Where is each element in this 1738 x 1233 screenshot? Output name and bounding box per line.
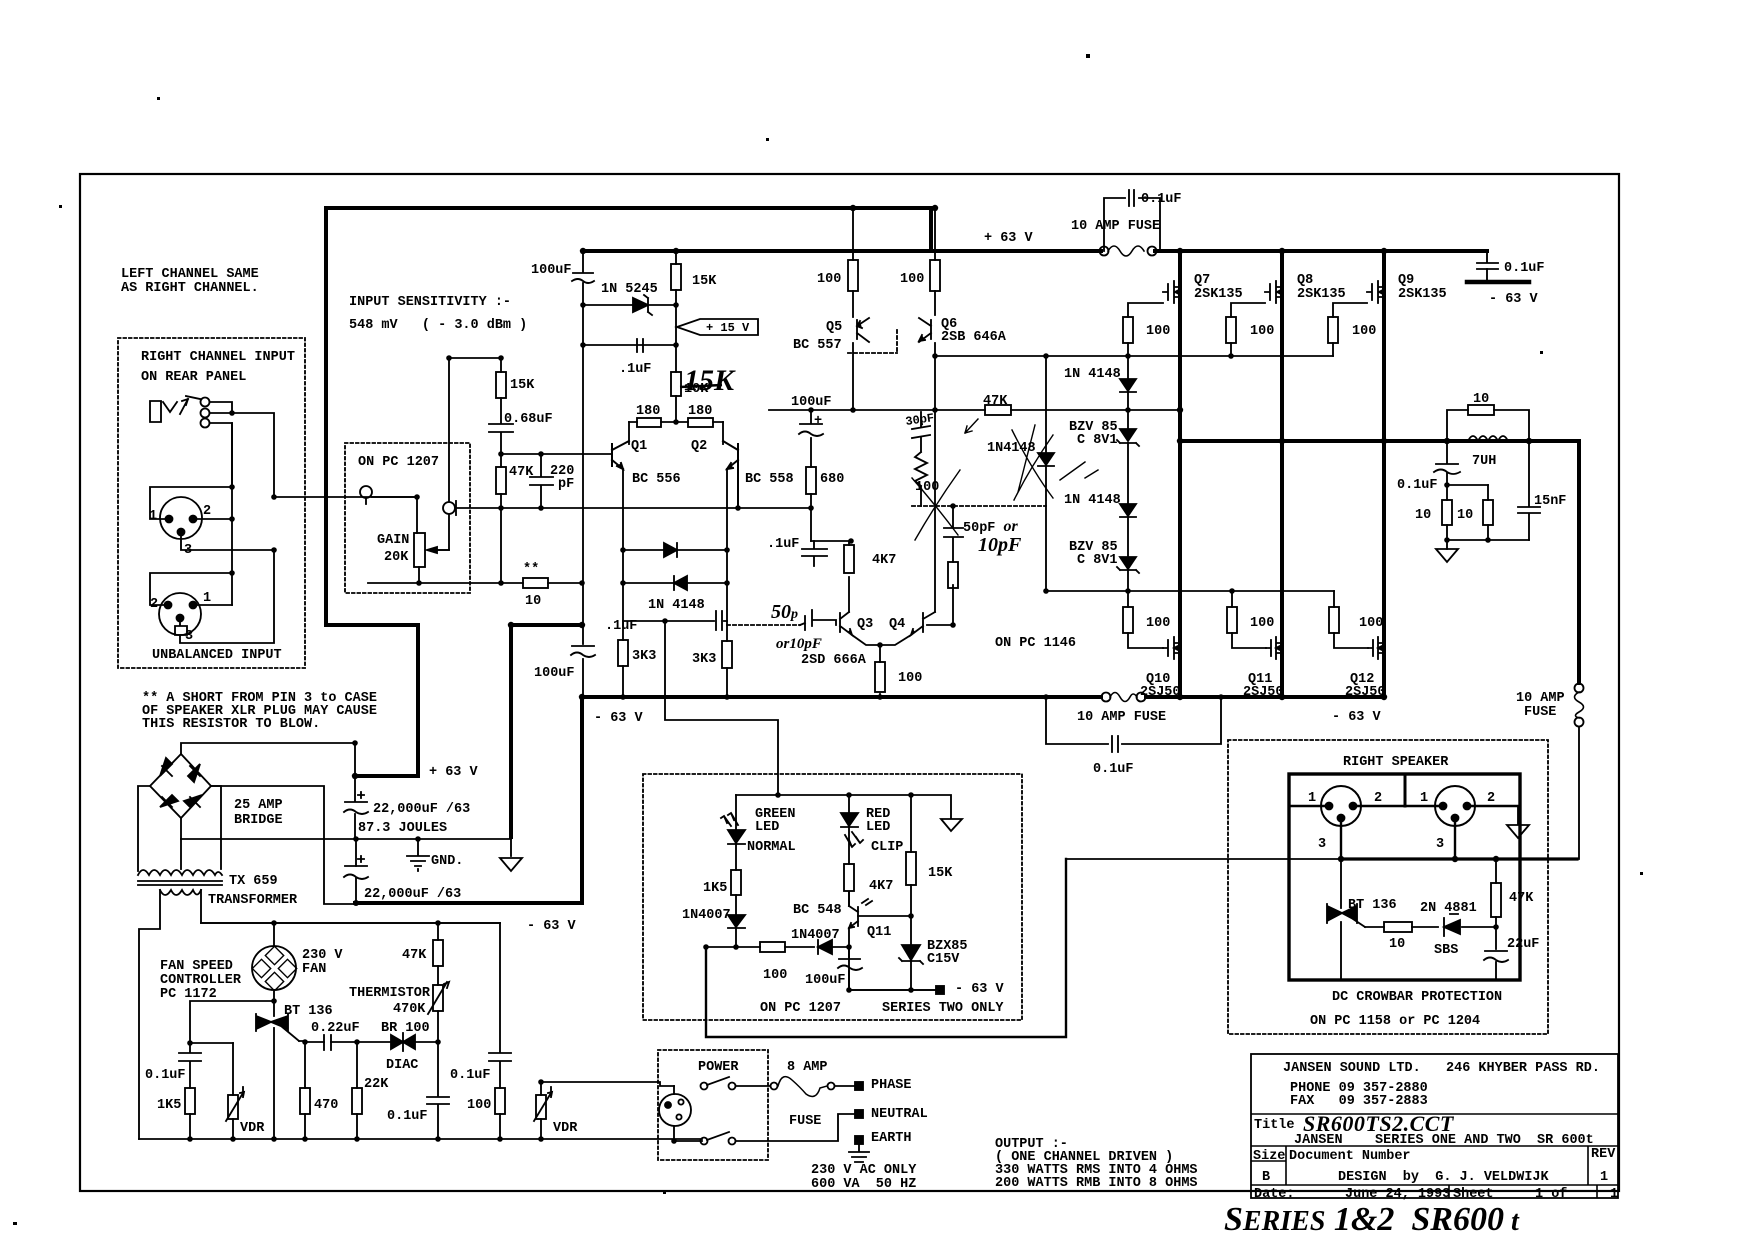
- svg-text:BC 557: BC 557: [793, 338, 842, 353]
- wire Q8 gate branch: [1231, 303, 1265, 356]
- switch power top: [701, 1083, 708, 1090]
- svg-text:180: 180: [636, 404, 660, 419]
- box ON PC 1207 gain dotted: [345, 443, 470, 593]
- tag +15V pointed box: [677, 319, 758, 335]
- svg-text:DIAC: DIAC: [386, 1058, 418, 1073]
- wire 15K input column: [500, 358, 502, 583]
- diode D 1N5245 zener: [633, 295, 652, 315]
- svg-text:Q9: Q9: [1398, 273, 1414, 288]
- wire fuse to speaker line: [1578, 727, 1580, 859]
- diode 1N4007 led2: [818, 940, 832, 954]
- resistor 180 left: [637, 418, 661, 427]
- triac BT136 crowbar: [1327, 904, 1365, 927]
- capacitor 0.1uF diac: [427, 1097, 449, 1104]
- svg-text:1N 4148: 1N 4148: [648, 598, 705, 613]
- wire Q11 collector emitter: [848, 892, 850, 990]
- node dots group: [580, 302, 586, 308]
- capacitor 0.1uF top bypass: [1129, 190, 1134, 206]
- wire right branch top: [499, 923, 501, 1139]
- wire output bus: [1180, 441, 1579, 683]
- svg-text:- 63 V: - 63 V: [955, 982, 1005, 997]
- wire zobel right resistor column: [1487, 485, 1489, 540]
- wire 0.1uF top right stub: [1486, 251, 1488, 282]
- wire Q8 drain-source column: [1280, 251, 1284, 697]
- wire Q1 emitter column: [622, 469, 624, 697]
- svg-text:1: 1: [1420, 791, 1428, 806]
- svg-text:EARTH: EARTH: [871, 1131, 912, 1146]
- ground triangle speaker: [1507, 825, 1529, 838]
- wire dashed mid sense: [912, 505, 1046, 507]
- svg-text:100uF: 100uF: [805, 973, 846, 988]
- terminal -63V led: [936, 986, 944, 994]
- connector pin circle input: [360, 486, 372, 498]
- svg-text:0.22uF: 0.22uF: [311, 1021, 360, 1036]
- resistor 22K: [352, 1088, 362, 1114]
- svg-text:JANSEN SERIES ONE AND TWO: JANSEN SERIES ONE AND TWO SR 600t: [1294, 1133, 1594, 1148]
- diode 2N4881 SBS: [1444, 914, 1460, 936]
- capacitor 22000uF top: [344, 792, 368, 814]
- wire mid feedback long row: [769, 409, 1180, 411]
- svg-text:+ 63 V: + 63 V: [429, 765, 479, 780]
- svg-text:100: 100: [898, 671, 922, 686]
- resistor 10 output loop: [1468, 405, 1494, 415]
- wire Q9 gate branch: [1333, 303, 1367, 356]
- transformer primary winding: [160, 890, 201, 895]
- svg-text:548 mV ( - 3.0 dBm ): 548 mV ( - 3.0 dBm ): [349, 318, 527, 333]
- resistor 15K top (676): [671, 264, 681, 290]
- svg-text:BT 136: BT 136: [284, 1004, 333, 1019]
- fuse right 10A vertical: [1575, 684, 1584, 693]
- transistor Q12 2SJ50 mosfet: [1368, 637, 1384, 659]
- wire Q3 Q4 emitter join: [852, 635, 911, 697]
- svg-text:Q3: Q3: [857, 617, 873, 632]
- svg-text:100: 100: [1146, 616, 1170, 631]
- wire sbs to 47K node: [1462, 926, 1496, 928]
- diode 1N4007 led: [728, 915, 745, 928]
- svg-text:1N4007: 1N4007: [682, 908, 731, 923]
- ground triangle open: [500, 839, 522, 871]
- svg-text:1N4148: 1N4148: [987, 441, 1036, 456]
- svg-text:15nF: 15nF: [1534, 494, 1566, 509]
- wire 15nF column: [1528, 441, 1530, 540]
- connector mains plug: [659, 1094, 691, 1126]
- resistor 100 gate Q11: [1227, 607, 1237, 633]
- svg-text:2SK135: 2SK135: [1398, 287, 1447, 302]
- svg-text:180: 180: [688, 404, 712, 419]
- varistor VDR right: [536, 1095, 546, 1119]
- wire XLR2 pin2: [150, 573, 232, 605]
- transistor Q1 BC556: [612, 441, 629, 469]
- svg-text:100: 100: [1250, 324, 1274, 339]
- capacitor 50p sketchy: [800, 610, 836, 630]
- wire primary right leg: [201, 890, 500, 923]
- wire feedback vertical to gain pot: [431, 358, 449, 550]
- svg-text:100: 100: [1359, 616, 1383, 631]
- svg-text:- 63 V: - 63 V: [594, 711, 644, 726]
- svg-text:CONTROLLER: CONTROLLER: [160, 973, 242, 988]
- svg-text:ON PC 1207: ON PC 1207: [760, 1001, 841, 1016]
- capacitor 15nF: [1518, 507, 1540, 513]
- wire diode ladder column: [1127, 356, 1129, 591]
- svg-text:10 AMP: 10 AMP: [1516, 691, 1565, 706]
- wire Q2 emitter column: [726, 469, 728, 697]
- resistor 100 tail (880,662-694): [875, 662, 885, 692]
- resistor ** 10 (523-548,583): [523, 578, 548, 588]
- svg-text:**: **: [523, 562, 539, 577]
- transistor Q9 2SK135 mosfet: [1367, 281, 1385, 303]
- svg-text:600 VA 50 HZ: 600 VA 50 HZ: [811, 1177, 916, 1192]
- capacitor 100uF bottom left (583,645-658): [571, 646, 595, 657]
- svg-text:BT 136: BT 136: [1348, 898, 1397, 913]
- ground earth symbol: [849, 1144, 869, 1162]
- diode LED red: [841, 813, 863, 847]
- svg-text:+ 15 V: + 15 V: [706, 321, 750, 335]
- svg-text:FUSE: FUSE: [1524, 705, 1556, 720]
- connector speaker XLR2: [1435, 786, 1475, 826]
- wire Q12 gate branch: [1334, 591, 1368, 648]
- wire switch to fuse: [736, 1085, 770, 1087]
- svg-text:2SK135: 2SK135: [1194, 287, 1243, 302]
- svg-text:1 of: 1 of: [1535, 1187, 1567, 1202]
- wire 47K stubs: [437, 923, 439, 985]
- resistor 47K crowbar: [1491, 883, 1501, 917]
- transformer secondary winding: [138, 870, 222, 875]
- svg-text:3: 3: [1436, 837, 1444, 852]
- wire +63V rail after fuse: [1155, 249, 1487, 253]
- wire 180 resistor row: [629, 421, 723, 423]
- svg-text:230 V: 230 V: [302, 948, 343, 963]
- wire diode rung upper: [623, 549, 727, 551]
- triac BT136: [256, 1014, 299, 1041]
- ground GND symbol: [407, 839, 429, 871]
- wire .1uF center low row: [623, 620, 727, 622]
- resistor 680 (811,467-494): [806, 467, 816, 494]
- svg-text:10 AMP FUSE: 10 AMP FUSE: [1077, 710, 1166, 725]
- svg-text:100: 100: [1352, 324, 1376, 339]
- wire Q7 drain-source column: [1178, 251, 1182, 697]
- resistor 100 gate Q10: [1123, 607, 1133, 633]
- transistor Q10 2SJ50 mosfet: [1163, 637, 1180, 659]
- wire diode rung lower: [623, 582, 727, 584]
- sheet border frame: [80, 174, 1619, 1191]
- wire bridge AC left: [138, 786, 150, 871]
- svg-text:10K: 10K: [684, 382, 709, 397]
- svg-text:UNBALANCED INPUT: UNBALANCED INPUT: [152, 648, 282, 663]
- svg-text:3: 3: [1318, 837, 1326, 852]
- svg-text:Q8: Q8: [1297, 273, 1313, 288]
- svg-text:10: 10: [1389, 937, 1405, 952]
- capacitor 0.1uF zobel: [1434, 464, 1460, 474]
- wire shield bus: [231, 423, 233, 605]
- terminal EARTH: [855, 1136, 863, 1144]
- svg-text:1N 4148: 1N 4148: [1064, 493, 1121, 508]
- wire fuse to phase: [835, 1085, 855, 1087]
- fuse top 10A: [1100, 247, 1109, 256]
- wire 100uF mid column: [810, 410, 812, 541]
- svg-text:4K7: 4K7: [869, 879, 893, 894]
- wire input node row: [449, 357, 501, 359]
- svg-text:0.1uF: 0.1uF: [1141, 192, 1182, 207]
- wire XLR1 pin3: [181, 532, 274, 550]
- transistor Q3 2SD666A: [840, 612, 852, 635]
- transistor Q2 BC558: [723, 441, 738, 508]
- wire diac row: [305, 1041, 438, 1043]
- diode bridge upper left: [160, 758, 172, 776]
- wire -63V rail right of fuse: [1146, 695, 1384, 699]
- svg-text:2SJ50: 2SJ50: [1243, 685, 1284, 700]
- wire Q4 collector column: [934, 343, 936, 612]
- wire -63V feed thick: [511, 623, 582, 627]
- svg-text:AS RIGHT CHANNEL.: AS RIGHT CHANNEL.: [121, 281, 259, 296]
- wire green led column: [735, 795, 737, 947]
- diode 1N4148 ladder 1: [1120, 379, 1136, 392]
- svg-text:THERMISTOR: THERMISTOR: [349, 986, 431, 1001]
- capacitor 22000uF bottom: [344, 856, 368, 879]
- svg-text:NEUTRAL: NEUTRAL: [871, 1107, 928, 1122]
- svg-text:- 63 V: - 63 V: [1489, 292, 1539, 307]
- svg-text:CLIP: CLIP: [871, 840, 903, 855]
- svg-text:SBS: SBS: [1434, 943, 1458, 958]
- svg-text:Date:: Date:: [1254, 1187, 1295, 1202]
- resistor 1K5 led: [731, 870, 741, 895]
- svg-text:10pF: 10pF: [978, 534, 1022, 556]
- svg-text:pF: pF: [558, 477, 574, 492]
- wire cap2 stubs: [355, 839, 357, 903]
- wire Q4 base link: [927, 585, 953, 625]
- capacitor .1uF center low (716-722,610-630): [716, 611, 722, 630]
- svg-text:22K: 22K: [364, 1077, 389, 1092]
- diode rung lower 1N4148: [674, 576, 687, 590]
- wire gate bus row: [935, 355, 1333, 357]
- connector pin circle wiper: [443, 502, 455, 514]
- svg-text:REV: REV: [1591, 1147, 1616, 1162]
- svg-text:2SK135: 2SK135: [1297, 287, 1346, 302]
- resistor 1K5 fan: [185, 1088, 195, 1114]
- resistor 470: [300, 1088, 310, 1114]
- wire 47K column: [1495, 859, 1497, 978]
- connector XLR1 female: [160, 497, 202, 539]
- svg-text:FAN: FAN: [302, 962, 326, 977]
- wire Q9 drain-source column: [1382, 251, 1386, 697]
- capacitor 0.68uF (501,423-433): [489, 424, 513, 432]
- wire ground bar: [181, 838, 511, 840]
- svg-text:7UH: 7UH: [1472, 454, 1496, 469]
- svg-text:680: 680: [820, 472, 844, 487]
- svg-text:LED: LED: [755, 820, 779, 835]
- svg-text:100: 100: [915, 480, 939, 495]
- wire 100uF led column: [849, 947, 940, 990]
- wire gain pot bottom: [418, 567, 420, 583]
- transistor Q11 BC548: [849, 899, 872, 928]
- svg-text:PHASE: PHASE: [871, 1078, 912, 1093]
- wire bridge plus output: [181, 743, 355, 776]
- capacitor 100uF led: [838, 959, 862, 970]
- wire pin3 drops: [1341, 818, 1455, 859]
- wire speaker box divider: [1404, 774, 1407, 806]
- diode zener BZV85 2: [1117, 557, 1139, 573]
- wire 220pF column: [540, 454, 542, 508]
- svg-text:C15V: C15V: [927, 952, 960, 967]
- svg-text:1N 4148: 1N 4148: [1064, 367, 1121, 382]
- wire .1uF row: [583, 344, 676, 346]
- wire speaker box frame: [1289, 774, 1520, 980]
- transformer core lines: [138, 881, 222, 885]
- svg-text:1N4007: 1N4007: [791, 928, 840, 943]
- svg-text:June 24, 1993: June 24, 1993: [1345, 1187, 1450, 1202]
- svg-text:ON PC 1158 or PC 1204: ON PC 1158 or PC 1204: [1310, 1014, 1480, 1029]
- svg-text:100uF: 100uF: [531, 263, 572, 278]
- wire jack sleeve: [210, 423, 232, 486]
- svg-text:ON REAR PANEL: ON REAR PANEL: [141, 370, 246, 385]
- wire -63V vertical feed: [509, 625, 513, 837]
- diode 1N4148 ladder 2: [1120, 504, 1136, 517]
- svg-text:3: 3: [185, 629, 193, 644]
- wire dashed Q3 base: [727, 624, 800, 626]
- svg-text:2: 2: [150, 597, 158, 612]
- wire 10 ohm loop over inductor: [1447, 410, 1529, 441]
- transistor Q8 2SK135 mosfet: [1265, 281, 1283, 303]
- wire XLR2 pin3: [175, 550, 274, 643]
- svg-text:Q4: Q4: [889, 617, 905, 632]
- wire XLR2 pin1: [193, 604, 232, 606]
- svg-text:0.1uF: 0.1uF: [1093, 762, 1134, 777]
- svg-text:INPUT SENSITIVITY :-: INPUT SENSITIVITY :-: [349, 295, 511, 310]
- svg-text:0.68uF: 0.68uF: [504, 412, 553, 427]
- wire primary left leg: [139, 890, 160, 1139]
- svg-text:47K: 47K: [1509, 891, 1534, 906]
- transistor Q6 2SB646A: [919, 318, 931, 342]
- wire neutral: [736, 1114, 855, 1141]
- resistor 10 zobel right: [1483, 500, 1493, 525]
- fuse bottom 10A: [1102, 693, 1111, 702]
- svg-text:1: 1: [1600, 1170, 1608, 1185]
- svg-text:+ 63 V: + 63 V: [984, 231, 1034, 246]
- svg-text:100: 100: [763, 968, 787, 983]
- wire 1N5245 row: [583, 304, 676, 306]
- wire crowbar sense down: [706, 859, 1066, 1037]
- svg-text:BRIDGE: BRIDGE: [234, 813, 283, 828]
- wire resistor to sbs: [1412, 926, 1438, 928]
- svg-text:+: +: [814, 414, 822, 429]
- svg-text:VDR: VDR: [553, 1121, 578, 1136]
- table row dividers: [1251, 1114, 1618, 1185]
- wire center tap: [180, 839, 182, 869]
- wire 15K top resistor stubs: [675, 251, 677, 422]
- svg-text:0.1uF: 0.1uF: [387, 1109, 428, 1124]
- svg-text:1: 1: [149, 509, 157, 524]
- wire Q11 gate branch: [1232, 591, 1266, 648]
- wire Q11 base link: [858, 915, 911, 917]
- resistor 100 led: [760, 942, 785, 952]
- wire zobel bottom row: [1447, 539, 1529, 541]
- wire XLR1 pin1: [150, 487, 232, 519]
- svg-text:1K5: 1K5: [157, 1098, 181, 1113]
- svg-text:10: 10: [525, 594, 541, 609]
- svg-text:C 8V1: C 8V1: [1077, 553, 1118, 568]
- svg-text:FUSE: FUSE: [789, 1114, 821, 1129]
- resistor 3K3 left: [618, 640, 628, 666]
- svg-text:Q11: Q11: [867, 925, 891, 940]
- svg-text:ON PC 1207: ON PC 1207: [358, 455, 439, 470]
- capacitor 50pF sketchy column: [944, 506, 963, 562]
- wire fan circuit top rail: [201, 922, 500, 924]
- svg-text:1K5: 1K5: [703, 881, 727, 896]
- svg-text:Q7: Q7: [1194, 273, 1210, 288]
- svg-text:100: 100: [467, 1098, 491, 1113]
- svg-text:VDR: VDR: [240, 1121, 265, 1136]
- svg-text:3K3: 3K3: [632, 649, 656, 664]
- transistor Q11 2SJ50 mosfet: [1266, 637, 1282, 659]
- table title block frame: [1251, 1054, 1618, 1198]
- capacitor 100uF top (583,272-283): [572, 273, 594, 283]
- svg-text:47K: 47K: [402, 948, 427, 963]
- wire 15K led column: [910, 795, 912, 990]
- diode bridge lower left: [160, 795, 178, 807]
- wire bridge right corner: [211, 786, 356, 904]
- transistor Q7 2SK135 mosfet: [1163, 281, 1181, 303]
- svg-text:15K: 15K: [928, 866, 953, 881]
- resistor 4K7 led: [844, 864, 854, 891]
- svg-text:10: 10: [1415, 508, 1431, 523]
- svg-text:1: 1: [203, 591, 211, 606]
- capacitor 220pF (541,477-485): [530, 477, 553, 485]
- wire zener mid row: [1046, 590, 1334, 592]
- svg-text:- 63 V: - 63 V: [1332, 710, 1382, 725]
- svg-text:47K: 47K: [509, 465, 534, 480]
- svg-text:- 63 V: - 63 V: [527, 919, 577, 934]
- svg-text:10: 10: [1473, 392, 1489, 407]
- svg-text:GND.: GND.: [431, 854, 463, 869]
- svg-text:4K7: 4K7: [872, 553, 896, 568]
- svg-text:1: 1: [1610, 1187, 1618, 1202]
- inductor 7UH: [1468, 436, 1508, 441]
- resistor 47K thermistor top: [433, 940, 443, 966]
- wire crowbar triac column: [1340, 859, 1342, 978]
- wire Q7 gate branch: [1128, 303, 1163, 356]
- diode bridge upper right: [188, 764, 200, 782]
- resistor 180 right: [688, 418, 713, 427]
- svg-text:2: 2: [1374, 791, 1382, 806]
- wire Q6 column upper: [934, 208, 936, 315]
- motor fan 230V: [252, 946, 296, 990]
- wire +63V fuse bypass loop: [1104, 198, 1160, 251]
- svg-text:RIGHT SPEAKER: RIGHT SPEAKER: [1343, 755, 1449, 770]
- svg-text:100: 100: [900, 272, 924, 287]
- capacitor 0.1uF bottom bypass: [1112, 736, 1118, 752]
- svg-text:246 KHYBER PASS RD.: 246 KHYBER PASS RD.: [1446, 1061, 1600, 1076]
- svg-text:BC 558: BC 558: [745, 472, 794, 487]
- svg-text:87.3 JOULES: 87.3 JOULES: [358, 821, 447, 836]
- wire bridge AC right: [211, 786, 221, 869]
- svg-text:.1uF: .1uF: [767, 537, 799, 552]
- rectifier 25A bridge diamond: [150, 754, 211, 818]
- svg-text:Title: Title: [1254, 1118, 1295, 1133]
- wire 0.1uF decoupling bar right: [1467, 280, 1529, 285]
- svg-text:ON PC 1146: ON PC 1146: [995, 636, 1076, 651]
- svg-text:C 8V1: C 8V1: [1077, 433, 1118, 448]
- svg-text:PC 1172: PC 1172: [160, 987, 217, 1002]
- resistor 15K led: [906, 852, 916, 885]
- svg-text:230 V AC ONLY: 230 V AC ONLY: [811, 1163, 917, 1178]
- wire speaker ground stub: [1517, 806, 1519, 824]
- potentiometer GAIN 20K: [414, 533, 425, 567]
- capacitor 0.1uF fan left: [179, 1053, 201, 1061]
- svg-text:Size: Size: [1253, 1149, 1285, 1164]
- resistor 10 crowbar: [1384, 922, 1412, 932]
- connector jack contacts: [201, 398, 210, 407]
- wire speaker feed line thin part: [1066, 858, 1341, 860]
- svg-text:2SJ50: 2SJ50: [1140, 685, 1181, 700]
